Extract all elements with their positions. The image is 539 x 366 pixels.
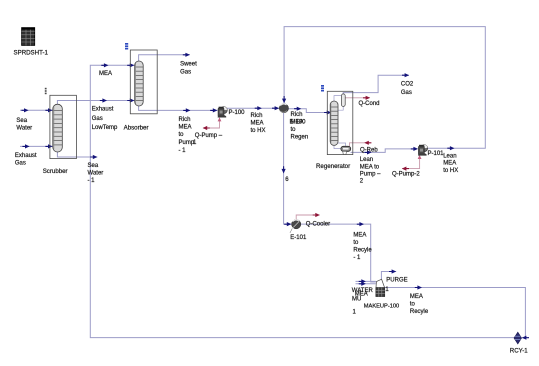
svg-text:Recyle: Recyle [410, 309, 429, 315]
svg-text:Exhaust: Exhaust [15, 153, 37, 159]
svg-text:Lean: Lean [360, 157, 373, 163]
svg-text:Gas: Gas [92, 116, 103, 122]
svg-text:Scrubber: Scrubber [43, 168, 68, 175]
svg-text:Exhaust: Exhaust [92, 107, 114, 113]
svg-text:Rich: Rich [251, 113, 263, 119]
svg-text:to: to [291, 127, 297, 133]
svg-text:Lean: Lean [443, 153, 456, 159]
svg-text:SPRDSHT-1: SPRDSHT-1 [14, 49, 49, 56]
svg-text:Rich: Rich [179, 117, 191, 123]
svg-text:MEA: MEA [251, 121, 264, 127]
svg-text:to: to [179, 132, 185, 138]
svg-text:Q-Pump-2: Q-Pump-2 [392, 172, 420, 178]
svg-text:Pump –: Pump – [360, 172, 381, 178]
svg-text:MU: MU [352, 297, 361, 303]
svg-text:Regenerator: Regenerator [316, 163, 350, 170]
svg-text:MAKEUP-100: MAKEUP-100 [364, 303, 399, 309]
svg-text:MEA: MEA [353, 232, 366, 238]
svg-text:CO2: CO2 [401, 82, 414, 88]
svg-text:Recyle: Recyle [353, 247, 372, 253]
svg-text:- 1: - 1 [88, 178, 96, 184]
svg-text:MEA: MEA [99, 71, 112, 77]
svg-text:Absorber: Absorber [124, 124, 149, 131]
svg-text:MEA: MEA [410, 294, 423, 300]
svg-text:- 1: - 1 [179, 148, 187, 154]
svg-text:to HX: to HX [443, 168, 458, 174]
svg-text:to: to [353, 240, 359, 246]
svg-text:Gas: Gas [401, 90, 412, 96]
svg-text:Gas: Gas [180, 70, 191, 76]
svg-text:Q-Cond: Q-Cond [359, 101, 380, 107]
svg-text:Rich: Rich [291, 112, 303, 118]
svg-text:Regen: Regen [291, 134, 309, 140]
svg-text:E-101: E-101 [290, 235, 307, 241]
svg-text:Gas: Gas [15, 160, 26, 166]
svg-text:MEA to: MEA to [360, 164, 380, 170]
svg-text:LowTemp: LowTemp [92, 125, 118, 131]
svg-text:Q-Reb: Q-Reb [360, 147, 378, 153]
svg-text:Water: Water [88, 170, 104, 176]
svg-text:P-100: P-100 [229, 110, 246, 116]
svg-text:- 1: - 1 [353, 255, 361, 261]
svg-text:MEA: MEA [179, 125, 192, 131]
svg-text:E-100: E-100 [290, 120, 307, 126]
svg-text:P-101: P-101 [428, 151, 445, 157]
svg-text:Water: Water [16, 126, 32, 132]
svg-text:Q-Pump –: Q-Pump – [195, 133, 223, 139]
svg-text:Sweet: Sweet [180, 61, 197, 67]
svg-text:to HX: to HX [251, 128, 266, 134]
svg-text:MEA: MEA [443, 161, 456, 167]
svg-text:Sea: Sea [88, 163, 99, 169]
svg-text:Q-Cooler: Q-Cooler [306, 221, 330, 227]
svg-text:to: to [410, 302, 416, 308]
svg-text:RCY-1: RCY-1 [510, 348, 528, 355]
svg-text:Sea: Sea [16, 118, 27, 124]
svg-text:PURGE: PURGE [386, 277, 407, 283]
